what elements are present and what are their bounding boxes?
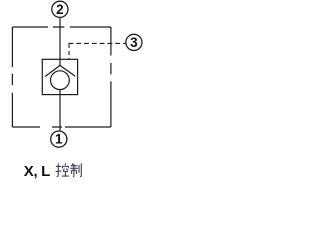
envelope right edge <box>110 27 112 127</box>
envelope (valve boundary, dashed) top edge <box>12 26 111 28</box>
svg-text:X, L: X, L <box>24 163 50 180</box>
svg-text:3: 3 <box>130 35 138 50</box>
port 2 circle <box>52 1 68 17</box>
wire: port 1 line from ball bottom to circle 1 <box>59 90 61 131</box>
caption: Chinese 控 (kong) drawn as strokes <box>56 163 69 176</box>
port 1 circle <box>51 131 67 147</box>
caption: X, L <box>24 163 50 180</box>
check valve seat (V) <box>45 65 75 76</box>
pilot line (dashed) horizontal segment to port 3 <box>69 42 126 44</box>
caption: Chinese 制 (zhi) drawn as strokes <box>70 163 81 177</box>
svg-text:2: 2 <box>56 2 64 17</box>
envelope bottom edge <box>12 126 111 128</box>
svg-text:1: 1 <box>55 132 63 147</box>
wire: port 2 line from circle 2 to seat apex <box>59 18 61 66</box>
check valve body (solid square) <box>42 59 77 94</box>
pilot line (dashed) vertical segment at valve top <box>68 44 70 59</box>
port 3 circle <box>126 34 142 50</box>
envelope left edge <box>11 27 13 127</box>
check valve ball <box>51 71 70 90</box>
